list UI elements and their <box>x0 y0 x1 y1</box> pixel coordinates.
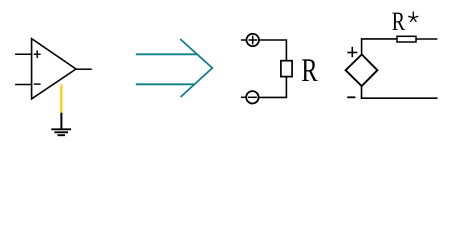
arrow: equivalence (double arrow) <box>136 39 213 97</box>
resistor R* <box>397 36 416 42</box>
ground <box>51 129 71 135</box>
wire: top corner to resistor R* <box>361 38 397 40</box>
wire: resistor R to minus terminal <box>259 77 287 98</box>
wire: op-amp non-inverting input <box>15 53 32 55</box>
label: source plus polarity <box>347 47 357 57</box>
wire: plus terminal to resistor R <box>259 40 287 61</box>
wire: resistor R* to right end <box>416 38 437 40</box>
wire: bottom rail <box>361 97 438 99</box>
wire: op-amp inverting input <box>15 84 32 86</box>
op-amp U1 <box>32 39 76 99</box>
wire: highlighted ground lead (yellow) <box>60 84 62 112</box>
terminal: plus terminal <box>247 34 259 46</box>
label: source minus polarity <box>347 96 355 98</box>
terminal: minus terminal <box>246 91 258 103</box>
dependent source (diamond) <box>346 55 378 87</box>
wire: source bottom vertex down to corner <box>361 86 363 98</box>
resistor R <box>281 61 292 77</box>
wire: op-amp output <box>76 68 92 70</box>
wire: source top vertex up to corner <box>361 39 363 55</box>
wire: minus terminal stub <box>241 96 246 98</box>
svg-text:R: R <box>392 6 405 36</box>
svg-text:R: R <box>301 53 317 89</box>
wire: ground stem <box>60 113 62 130</box>
label R* <box>392 6 419 36</box>
wire: plus terminal stub <box>241 39 247 41</box>
